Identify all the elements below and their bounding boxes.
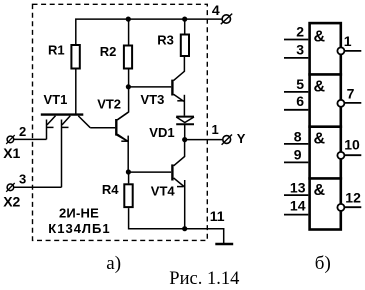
svg-text:R1: R1: [48, 43, 65, 58]
svg-text:9: 9: [294, 147, 302, 163]
svg-text:1: 1: [344, 33, 352, 49]
svg-text:VT4: VT4: [151, 184, 176, 199]
svg-text:&: &: [314, 131, 326, 148]
svg-text:2: 2: [296, 23, 304, 39]
svg-text:5: 5: [296, 76, 304, 92]
svg-text:10: 10: [344, 136, 360, 152]
svg-text:7: 7: [347, 86, 355, 102]
svg-text:&: &: [314, 182, 326, 199]
svg-text:VT2: VT2: [97, 97, 121, 112]
svg-text:3: 3: [296, 41, 304, 57]
svg-text:&: &: [314, 79, 326, 96]
svg-text:1: 1: [212, 122, 219, 137]
svg-text:4: 4: [212, 2, 220, 18]
svg-text:Y: Y: [237, 131, 246, 146]
svg-text:11: 11: [210, 208, 225, 224]
svg-text:6: 6: [296, 93, 304, 109]
svg-text:б): б): [315, 253, 331, 274]
svg-text:2И-НЕ: 2И-НЕ: [59, 205, 99, 220]
svg-text:К134ЛБ1: К134ЛБ1: [48, 221, 110, 236]
svg-text:X2: X2: [3, 194, 20, 210]
svg-text:12: 12: [345, 189, 361, 205]
svg-text:а): а): [106, 253, 121, 274]
svg-text:14: 14: [290, 198, 306, 214]
svg-text:Рис. 1.14: Рис. 1.14: [169, 269, 239, 289]
svg-text:VT1: VT1: [44, 92, 68, 107]
svg-text:3: 3: [19, 171, 26, 186]
svg-text:R2: R2: [100, 44, 117, 59]
svg-text:R4: R4: [102, 182, 119, 197]
svg-text:VD1: VD1: [149, 125, 174, 140]
svg-text:8: 8: [294, 129, 302, 145]
svg-text:13: 13: [290, 180, 306, 196]
svg-text:VT3: VT3: [141, 92, 165, 107]
svg-text:R3: R3: [157, 32, 174, 47]
svg-text:2: 2: [19, 124, 26, 139]
svg-text:X1: X1: [3, 145, 20, 161]
svg-text:&: &: [314, 29, 326, 46]
